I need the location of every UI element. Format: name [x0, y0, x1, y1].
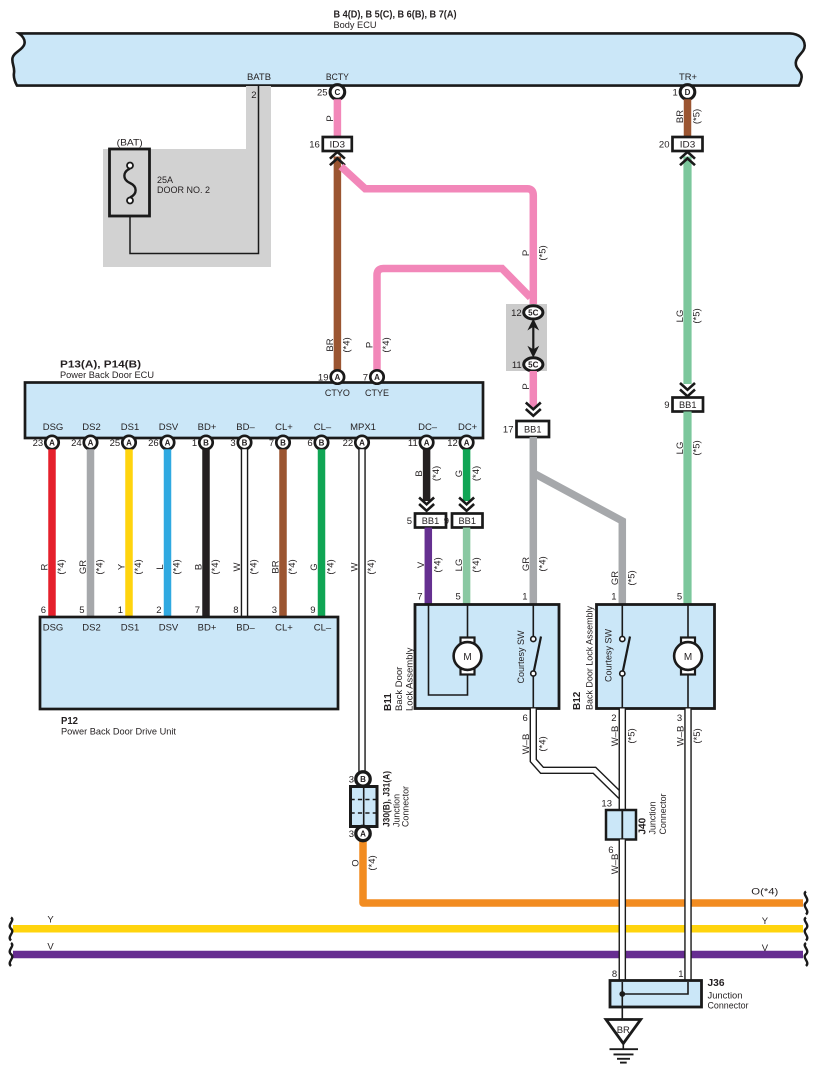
wire W-B from B12 pin 2 to J40	[610, 709, 638, 811]
svg-text:(*4): (*4)	[431, 466, 442, 481]
ECU pin 25 A	[110, 436, 136, 449]
wire GR from ECU to P12 pin 5	[78, 449, 106, 617]
svg-text:2: 2	[251, 90, 256, 101]
svg-text:3: 3	[272, 605, 277, 616]
svg-text:A: A	[464, 438, 470, 447]
svg-text:2: 2	[156, 605, 161, 616]
wire P from 5C to BB1 pin 17	[530, 371, 538, 408]
svg-text:12: 12	[511, 308, 522, 319]
svg-text:Y: Y	[762, 916, 769, 927]
svg-text:11: 11	[512, 360, 522, 371]
svg-text:1: 1	[522, 592, 527, 603]
svg-text:(*5): (*5)	[692, 728, 703, 743]
svg-text:(*4): (*4)	[133, 559, 144, 574]
wire Y from ECU to P12 pin 1	[117, 449, 145, 617]
connector BB1 pin 9 (right)	[673, 398, 704, 412]
svg-text:6: 6	[41, 605, 46, 616]
wire W-B from B11 pin 6	[521, 709, 621, 797]
ECU bottom terminal labels	[43, 422, 478, 433]
svg-text:A: A	[126, 438, 132, 447]
svg-text:26: 26	[148, 438, 159, 449]
svg-text:1: 1	[192, 438, 197, 449]
wire V from BB1 5 to B11 pin 7	[416, 528, 444, 605]
svg-text:3: 3	[349, 829, 354, 840]
svg-text:B11: B11	[383, 693, 394, 711]
svg-text:3: 3	[677, 713, 682, 724]
bus V	[13, 942, 803, 955]
svg-text:1: 1	[118, 605, 123, 616]
wire R from ECU to P12 pin 6	[40, 449, 68, 617]
svg-text:LG: LG	[675, 442, 686, 455]
wire GR branch to B12 pin 1	[533, 473, 622, 605]
svg-text:B12: B12	[572, 691, 583, 710]
B12 Back Door Lock Assembly box	[572, 605, 715, 711]
svg-text:BD+: BD+	[198, 422, 217, 433]
svg-text:16: 16	[309, 140, 320, 151]
wire BR from ECU to P12 pin 3	[271, 449, 299, 617]
connector J30(B) J31(A)	[349, 771, 411, 841]
bus cut squiggles	[10, 892, 808, 967]
ECU pin 23 A	[33, 436, 59, 449]
svg-text:Junction: Junction	[648, 802, 658, 835]
svg-text:W–B: W–B	[676, 726, 687, 747]
svg-text:DSV: DSV	[159, 422, 179, 433]
ECU pin 7 B	[269, 436, 290, 449]
svg-text:M: M	[463, 652, 471, 663]
svg-text:(*4): (*4)	[433, 557, 444, 572]
svg-text:BD–: BD–	[236, 623, 255, 634]
wire W MPX1 from ECU to J30	[350, 449, 378, 772]
svg-text:(*5): (*5)	[692, 308, 703, 323]
svg-text:19: 19	[318, 373, 329, 384]
svg-text:W–B: W–B	[521, 734, 532, 755]
svg-text:J36: J36	[708, 978, 725, 989]
ECU pin 24 A	[71, 436, 97, 449]
svg-text:(*4): (*4)	[471, 557, 482, 572]
svg-text:W–B: W–B	[610, 726, 621, 747]
svg-text:(*4): (*4)	[342, 337, 353, 352]
Power Back Door ECU box P13/P14	[25, 360, 483, 439]
svg-text:(*5): (*5)	[627, 570, 638, 585]
svg-text:P: P	[365, 342, 376, 348]
svg-text:CL+: CL+	[275, 422, 293, 433]
ECU pin 1 B	[192, 436, 213, 449]
svg-text:6: 6	[307, 438, 312, 449]
B12 courtesy switch	[604, 605, 631, 709]
svg-text:B: B	[360, 775, 366, 784]
svg-text:5: 5	[407, 516, 412, 527]
splice chevrons into BB1 17	[526, 403, 541, 410]
svg-text:3: 3	[230, 438, 235, 449]
svg-text:W–B: W–B	[610, 854, 621, 875]
connector J36	[610, 969, 749, 1012]
svg-text:8: 8	[233, 605, 238, 616]
svg-text:BB1: BB1	[422, 516, 440, 527]
pin 25 C on Body ECU	[317, 85, 345, 100]
svg-text:B: B	[280, 438, 286, 447]
connector 5C (pins 12/11)	[506, 304, 547, 371]
wire GR from BB1 17 to B11 pin 1	[530, 437, 538, 605]
svg-text:(*5): (*5)	[692, 109, 703, 124]
svg-text:Connector: Connector	[658, 794, 668, 835]
svg-text:O: O	[351, 859, 362, 866]
svg-text:B: B	[414, 470, 425, 476]
wire B from ECU to P12 pin 7	[194, 449, 222, 617]
svg-text:B: B	[194, 564, 205, 570]
svg-text:P: P	[325, 115, 336, 121]
svg-text:9: 9	[444, 516, 449, 527]
svg-text:DC+: DC+	[458, 422, 478, 433]
svg-text:Connector: Connector	[708, 1001, 749, 1012]
svg-text:CTYO: CTYO	[325, 388, 350, 399]
svg-text:A: A	[49, 438, 55, 447]
svg-text:B 4(D), B 5(C), B 6(B), B 7(A): B 4(D), B 5(C), B 6(B), B 7(A)	[334, 10, 457, 21]
svg-text:DS2: DS2	[82, 422, 100, 433]
svg-text:A: A	[335, 373, 341, 382]
svg-text:9: 9	[664, 400, 669, 411]
svg-text:A: A	[165, 438, 171, 447]
svg-text:A: A	[88, 438, 94, 447]
wire W-B from J40 to J36 pin 8	[610, 840, 623, 981]
wire P from ID3 splice to 5C connector	[341, 167, 533, 307]
wire BR from TR+ to ID3 pin 20	[684, 99, 692, 137]
ECU pin 12 A	[447, 436, 473, 449]
connector ID3 pin 20	[673, 137, 703, 151]
svg-text:Connector: Connector	[401, 786, 411, 827]
svg-text:1: 1	[678, 969, 683, 980]
svg-text:BR: BR	[325, 338, 336, 351]
wire BATB pin 2 to fuse	[130, 86, 259, 254]
wire BR from ID3 to CTYO pin 19	[334, 157, 342, 372]
svg-text:O(*4): O(*4)	[751, 887, 778, 898]
wire G from DC+ pin 12 to BB1 9	[454, 449, 482, 511]
svg-text:Y: Y	[47, 915, 54, 926]
ECU pin 22 A	[343, 436, 369, 449]
svg-text:(*4): (*4)	[367, 855, 378, 870]
svg-text:8: 8	[612, 969, 617, 980]
svg-text:BR: BR	[271, 560, 282, 573]
svg-text:6: 6	[523, 713, 528, 724]
B12 motor M	[674, 605, 702, 709]
svg-text:A: A	[374, 373, 380, 382]
svg-text:R: R	[40, 563, 51, 570]
svg-text:20: 20	[659, 140, 670, 151]
svg-text:BB1: BB1	[679, 400, 697, 411]
svg-text:B: B	[203, 438, 209, 447]
B11 motor M	[429, 605, 482, 696]
svg-text:DOOR NO. 2: DOOR NO. 2	[157, 185, 210, 196]
svg-text:5: 5	[677, 592, 682, 603]
svg-text:Courtesy SW: Courtesy SW	[604, 629, 615, 682]
svg-text:ID3: ID3	[330, 139, 346, 150]
svg-text:G: G	[454, 470, 465, 477]
ground symbol	[610, 1044, 639, 1063]
svg-text:P13(A), P14(B): P13(A), P14(B)	[60, 360, 141, 371]
B11 courtesy switch	[516, 605, 541, 709]
svg-text:DSG: DSG	[43, 422, 64, 433]
svg-text:23: 23	[33, 438, 44, 449]
svg-text:(*4): (*4)	[326, 559, 337, 574]
svg-text:LG: LG	[454, 559, 465, 572]
splice chevrons into BB1 9	[680, 383, 695, 390]
svg-text:V: V	[47, 942, 54, 953]
svg-text:M: M	[684, 652, 692, 663]
svg-text:DC–: DC–	[418, 422, 438, 433]
connector BB1 pin 17	[517, 421, 550, 437]
svg-text:7: 7	[417, 592, 422, 603]
connector BB1 pin 9 (left area)	[452, 514, 483, 528]
svg-text:5: 5	[456, 592, 461, 603]
svg-text:(*4): (*4)	[56, 559, 67, 574]
svg-text:A: A	[424, 438, 430, 447]
svg-text:Courtesy SW: Courtesy SW	[516, 630, 527, 683]
svg-text:BB1: BB1	[459, 516, 477, 527]
svg-text:G: G	[309, 563, 320, 570]
svg-text:(*4): (*4)	[471, 466, 482, 481]
svg-text:D: D	[685, 88, 691, 97]
ECU pin 19 A (CTYO)	[318, 370, 344, 383]
svg-text:BR: BR	[675, 110, 686, 123]
svg-text:W: W	[232, 562, 243, 571]
wire W from ECU to P12 pin 8	[232, 449, 260, 617]
svg-text:(*4): (*4)	[381, 337, 392, 352]
svg-text:(*5): (*5)	[538, 245, 549, 260]
svg-text:DSG: DSG	[43, 623, 64, 634]
pin 1 D on Body ECU	[673, 85, 695, 100]
svg-text:C: C	[335, 88, 341, 97]
ECU pin 11 A	[408, 436, 433, 449]
svg-text:1: 1	[611, 592, 616, 603]
wire LG from BB1 9 to B11 pin 5	[454, 528, 482, 605]
svg-text:W: W	[350, 562, 361, 571]
svg-text:CL–: CL–	[314, 422, 332, 433]
svg-text:Power Back Door ECU: Power Back Door ECU	[60, 370, 154, 381]
svg-text:(*5): (*5)	[627, 728, 638, 743]
svg-text:(*4): (*4)	[538, 556, 549, 571]
svg-text:A: A	[359, 438, 365, 447]
svg-text:2: 2	[611, 713, 616, 724]
svg-text:(*4): (*4)	[249, 559, 260, 574]
wire P from BCTY to ID3	[334, 99, 342, 137]
svg-text:BD+: BD+	[198, 623, 217, 634]
wire B from DC- pin 11 to BB1 5	[414, 449, 442, 511]
wire G from ECU to P12 pin 9	[309, 449, 337, 617]
wire P from CTYE pin 7 up to 5C connector	[377, 269, 531, 372]
svg-text:P12: P12	[61, 716, 78, 727]
svg-text:7: 7	[195, 605, 200, 616]
svg-text:BATB: BATB	[247, 72, 271, 83]
connector J40	[601, 794, 668, 857]
B11 Back Door Lock Assembly box	[383, 605, 559, 712]
svg-text:11: 11	[408, 438, 418, 449]
svg-text:7: 7	[269, 438, 274, 449]
svg-text:25: 25	[110, 438, 121, 449]
svg-text:Body ECU: Body ECU	[334, 20, 377, 31]
svg-text:5C: 5C	[528, 360, 538, 369]
connector BB1 pin 5	[415, 514, 446, 528]
bus O(*4)	[363, 840, 803, 903]
ECU pin 3 B	[230, 436, 251, 449]
ECU pin 6 B	[307, 436, 328, 449]
svg-text:B: B	[242, 438, 248, 447]
ECU pin 26 A	[148, 436, 174, 449]
svg-text:DS1: DS1	[121, 623, 139, 634]
svg-text:(BAT): (BAT)	[117, 138, 143, 149]
svg-text:(*4): (*4)	[95, 559, 106, 574]
svg-text:BB1: BB1	[524, 424, 542, 435]
svg-text:3: 3	[349, 775, 354, 786]
bus Y	[13, 915, 803, 929]
wire LG from ID3 20 to BB1 9	[683, 157, 691, 385]
svg-text:GR: GR	[521, 557, 532, 571]
svg-text:L: L	[155, 564, 166, 569]
svg-text:V: V	[416, 561, 427, 568]
svg-text:DS2: DS2	[82, 623, 100, 634]
svg-text:BR: BR	[617, 1025, 630, 1036]
Body ECU bus bar	[12, 10, 804, 86]
svg-text:(*4): (*4)	[366, 559, 377, 574]
svg-text:Back Door: Back Door	[394, 667, 405, 711]
svg-text:V: V	[762, 943, 769, 954]
svg-text:Y: Y	[117, 563, 128, 570]
svg-text:22: 22	[343, 438, 354, 449]
ECU pin 7 A (CTYE)	[363, 370, 384, 383]
svg-text:B: B	[319, 438, 325, 447]
svg-text:ID3: ID3	[680, 139, 696, 150]
fuse 25A DOOR NO. 2	[110, 138, 211, 217]
connector ID3 pin 16	[323, 137, 352, 151]
svg-text:7: 7	[363, 373, 368, 384]
svg-text:P: P	[521, 383, 532, 389]
svg-text:GR: GR	[610, 571, 621, 585]
svg-text:MPX1: MPX1	[350, 422, 376, 433]
svg-text:CTYE: CTYE	[365, 388, 389, 399]
wire LG from BB1 9 to B12 pin 5	[683, 412, 691, 605]
svg-text:(*4): (*4)	[287, 559, 298, 574]
svg-text:25: 25	[317, 88, 328, 99]
ground triangle BR	[606, 1020, 641, 1044]
svg-text:5C: 5C	[528, 308, 538, 317]
svg-text:CL+: CL+	[275, 623, 293, 634]
svg-text:BCTY: BCTY	[326, 72, 350, 83]
svg-text:17: 17	[503, 425, 514, 436]
svg-text:BD–: BD–	[236, 422, 255, 433]
svg-text:(*4): (*4)	[172, 559, 183, 574]
svg-text:1: 1	[673, 88, 678, 99]
svg-text:9: 9	[310, 605, 315, 616]
svg-text:DSV: DSV	[159, 623, 179, 634]
svg-text:24: 24	[71, 438, 82, 449]
svg-text:LG: LG	[675, 310, 686, 323]
svg-text:P: P	[521, 250, 532, 256]
svg-text:GR: GR	[78, 560, 89, 574]
svg-text:TR+: TR+	[679, 72, 697, 83]
svg-text:CL–: CL–	[314, 623, 332, 634]
power feed shading (BAT)	[103, 86, 271, 267]
svg-text:Back Door Lock Assembly: Back Door Lock Assembly	[585, 606, 596, 710]
wire W-B from B12 pin 3 to J36	[676, 709, 704, 981]
svg-text:13: 13	[601, 799, 612, 810]
svg-text:DS1: DS1	[121, 422, 139, 433]
svg-text:12: 12	[447, 438, 458, 449]
svg-text:Power Back Door Drive Unit: Power Back Door Drive Unit	[61, 727, 176, 738]
P12 Power Back Door Drive Unit box	[40, 617, 338, 738]
svg-text:(*4): (*4)	[210, 559, 221, 574]
wire to ground	[621, 994, 623, 1020]
splice chevrons under ID3 20	[680, 158, 695, 165]
splice chevrons under ID3 16	[330, 158, 345, 165]
svg-text:A: A	[360, 829, 366, 838]
svg-text:(*4): (*4)	[538, 736, 549, 751]
svg-text:5: 5	[79, 605, 84, 616]
svg-text:Lock Assembly: Lock Assembly	[405, 647, 416, 711]
wire L from ECU to P12 pin 2	[155, 449, 183, 617]
svg-text:(*5): (*5)	[692, 440, 703, 455]
